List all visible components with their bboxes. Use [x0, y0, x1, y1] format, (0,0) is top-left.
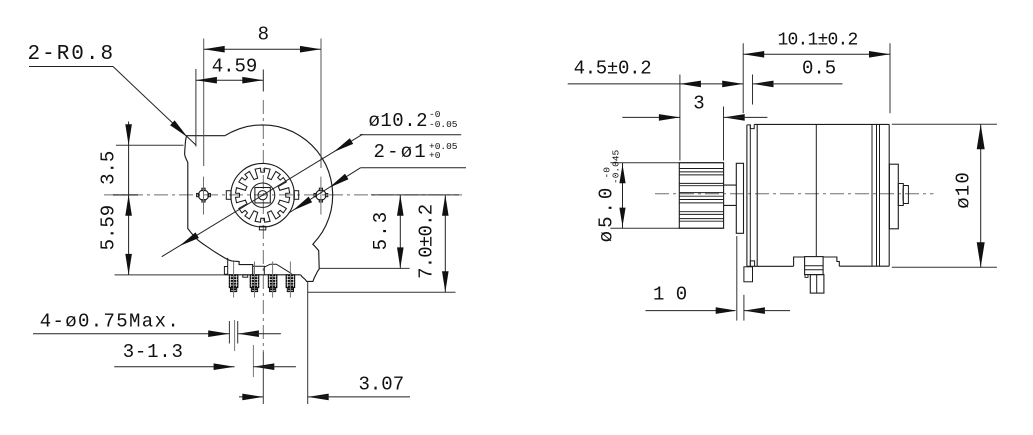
terminal block left edge	[227, 258, 229, 275]
dim 3.07 arrow right	[308, 394, 329, 401]
dim 3 arrow left	[659, 114, 680, 121]
dim 4.5 arrow left	[680, 81, 701, 88]
dim 5.3 arrow bottom	[397, 247, 404, 268]
svg-text:10.1±0.2: 10.1±0.2	[777, 31, 857, 51]
rear shaft step2	[903, 186, 908, 204]
dim 3 arrow right	[724, 114, 745, 121]
connector inner line 1	[805, 265, 824, 267]
svg-text:4.59: 4.59	[212, 56, 258, 78]
pinion tip line top	[610, 162, 723, 164]
connector inner line 2	[805, 269, 824, 271]
body rear line 3	[879, 124, 881, 266]
dim 8 line	[204, 48, 321, 50]
dim 1.0 leader	[646, 310, 736, 312]
leader 2-R0.8 arrow	[170, 120, 188, 137]
front cap top with notch	[747, 124, 754, 128]
pin 1	[229, 275, 238, 292]
dim 4.5 leader	[568, 83, 680, 85]
svg-text:ø10.2: ø10.2	[369, 110, 429, 132]
front cap bottom step	[750, 261, 754, 266]
dim 8 extension left	[203, 39, 205, 167]
dim 3.07 arrow left	[242, 394, 263, 401]
pin 3 centerline	[272, 262, 274, 298]
left mounting hole	[197, 188, 211, 202]
dim 3.5 arrow top	[125, 124, 132, 145]
left mounting hole centerline	[203, 177, 205, 215]
dim 3-1.3 tail	[253, 366, 296, 368]
dim 1.0 ext right	[743, 295, 745, 321]
dim 8 arrow right	[300, 46, 321, 53]
dim o10 line	[980, 124, 982, 267]
dim 10.1 arrow right	[869, 51, 890, 58]
centerline horizontal (side view)	[655, 193, 934, 195]
dim 5.3 arrow top	[397, 195, 404, 216]
dim o5.0 line	[622, 163, 624, 229]
rear bearing plate	[889, 164, 898, 229]
pinion tip line bottom	[610, 227, 723, 229]
pin2 centerline extension	[252, 345, 254, 377]
front cap left edge	[746, 125, 748, 267]
centerline vertical solid upper segment	[262, 70, 264, 92]
connector foot	[805, 275, 808, 278]
dim 7.0 extension bottom	[308, 291, 456, 293]
terminal block center step	[253, 266, 265, 275]
dim 3.5 extension top	[116, 144, 184, 146]
connector right ledge	[823, 257, 839, 266]
dim 0.5 ext	[752, 75, 754, 105]
svg-text:0.5: 0.5	[802, 58, 836, 80]
leader 2-R0.8 line	[113, 67, 196, 146]
body bottom edge left	[747, 265, 794, 267]
front cap inner line	[749, 125, 751, 267]
centerline solid lower segment	[262, 352, 264, 404]
dim 0.5 arrow	[753, 81, 774, 88]
dim o10 ext bottom	[892, 266, 997, 268]
motor body outline top/right (front view)	[225, 125, 333, 282]
dim 3 leader	[622, 116, 680, 118]
rear shaft tick	[902, 189, 904, 201]
dim 4.59 line	[196, 79, 263, 81]
dim o10 arrow bottom	[977, 242, 985, 267]
leader o10.2 arrow upper	[334, 138, 354, 152]
svg-text:5.59: 5.59	[98, 205, 120, 251]
dim 1.0 tail	[744, 310, 790, 312]
dim 4.59 arrow right	[242, 77, 263, 84]
dim 5.59 arrow bottom	[125, 254, 132, 275]
svg-text:3.07: 3.07	[359, 374, 405, 396]
dim 3-1.3 arrow left	[214, 363, 235, 370]
body top edge	[754, 123, 889, 125]
dim 3.07 extension	[307, 282, 309, 404]
dim o10 arrow top	[977, 124, 985, 149]
gearbox flange plate	[736, 163, 743, 233]
dim 3-1.3 arrow right	[253, 363, 274, 370]
right mounting hole	[314, 188, 328, 202]
dim 10.1 line	[743, 53, 890, 55]
pin 2 centerline	[254, 262, 256, 298]
leader o10.2 arrow lower	[179, 232, 199, 246]
pin 1 centerline	[233, 262, 235, 298]
svg-text:3.5: 3.5	[98, 151, 120, 185]
dim 4-o0.75 leader	[33, 333, 229, 335]
dim 1.0 arrow left	[716, 307, 737, 314]
dim 4-o0.75 arrow right	[238, 330, 259, 337]
pin1 right edge extension	[237, 321, 239, 344]
body rear line 2	[876, 124, 878, 266]
front cap bottom tab	[744, 267, 753, 282]
terminal base left tab	[224, 267, 227, 275]
dim 4.59 arrow left	[196, 77, 217, 84]
dim 5.3 extension bottom	[319, 267, 409, 269]
pinion body	[679, 163, 723, 229]
body bottom edge right	[839, 265, 889, 267]
pin 3	[268, 275, 277, 292]
dim 4-o0.75 tail	[238, 333, 281, 335]
leader 2-o1 diagonal	[288, 168, 361, 214]
gear hub square	[255, 188, 270, 203]
leader 2-o1 arrow upper	[329, 174, 349, 188]
svg-text:-0.045: -0.045	[611, 149, 622, 184]
dim 5.3 line	[399, 195, 401, 269]
svg-text:8: 8	[258, 24, 269, 46]
svg-text:-0.05: -0.05	[429, 119, 458, 130]
gear center bore	[258, 191, 267, 200]
body seam line	[815, 124, 817, 256]
body rear line 1	[871, 124, 873, 266]
leader 2-R0.8 underline	[29, 66, 113, 68]
notch between pin1 and pin2	[243, 275, 248, 277]
centerline vertical (front view)	[262, 100, 264, 352]
svg-text:4.5±0.2: 4.5±0.2	[574, 58, 652, 80]
svg-text:4-ø0.75Max.: 4-ø0.75Max.	[40, 311, 180, 333]
dim 8 arrow left	[204, 46, 225, 53]
connector box	[805, 257, 824, 275]
connector lower tab inner	[816, 275, 818, 294]
dim o5.0 arrow bottom	[619, 208, 625, 227]
gear circle right tab	[294, 191, 299, 200]
datum segment at 3.5/5.59 dim	[113, 194, 138, 196]
dim 8 extension right	[320, 39, 322, 169]
dim 4.59 extension left	[195, 69, 197, 147]
pin 4 centerline	[289, 262, 291, 298]
gear circle left tab	[226, 191, 231, 200]
dim 7.0 arrow top	[442, 195, 449, 216]
gear circle bottom tab	[259, 226, 265, 230]
dim 3.5 arrow bottom / 5.59 arrow top	[125, 195, 132, 216]
svg-text:2-ø1: 2-ø1	[374, 141, 428, 163]
motor body outline left/bottom (front view)	[185, 136, 253, 275]
connector lower tab	[810, 275, 824, 294]
dim 0.5 tail	[753, 83, 843, 85]
dim 3 ext right	[723, 107, 725, 161]
dim 4.5 ext pinion face	[679, 75, 681, 161]
rear shaft step1	[898, 184, 903, 206]
label o10.2 underline	[360, 134, 461, 136]
label 2-o1 underline	[361, 167, 466, 169]
centerline horizontal (front view)	[104, 194, 462, 196]
gear hub octagon	[250, 183, 274, 207]
gear outer circle	[231, 163, 295, 227]
right mounting hole centerline	[320, 177, 322, 215]
dim 10.1 arrow left	[743, 51, 764, 58]
pin 4	[286, 275, 295, 292]
dim 4.5 arrow right	[722, 81, 743, 88]
pinion shaft	[724, 185, 737, 205]
leader o10.2 diagonal	[162, 134, 363, 257]
svg-text:3: 3	[693, 93, 704, 115]
svg-text:2-R0.8: 2-R0.8	[28, 43, 116, 66]
datum segment at 5.3/7.0 dim	[371, 194, 459, 196]
gear teeth	[236, 168, 290, 222]
dim 1.0 ext left	[736, 236, 738, 321]
dim o10 ext top	[892, 123, 997, 125]
svg-text:7.0±0.2: 7.0±0.2	[416, 204, 438, 279]
dim 10.1 extension right	[889, 43, 891, 113]
svg-text:5.3: 5.3	[370, 210, 392, 251]
pin 2	[250, 275, 259, 292]
dim 7.0 line	[444, 195, 446, 292]
body right face	[888, 124, 890, 266]
front cap right edge	[756, 124, 758, 266]
dim 4.5 line	[680, 83, 743, 85]
dim 3.5/5.59 line	[128, 122, 130, 275]
dim 3.07 tail	[308, 396, 410, 398]
svg-text:ø5.0: ø5.0	[596, 185, 618, 243]
dim o5.0 arrow top	[619, 164, 625, 183]
dim 10.1 extension left	[742, 43, 744, 113]
pin1 left edge extension	[228, 321, 230, 344]
dim 7.0 arrow bottom	[442, 271, 449, 292]
svg-text:ø10: ø10	[953, 171, 975, 209]
svg-text:+0: +0	[429, 150, 441, 161]
dim 3 tail	[724, 116, 768, 118]
pinion teeth stripes	[679, 169, 723, 222]
dim 4-o0.75 arrow left	[208, 330, 229, 337]
dim 3-1.3 line	[114, 366, 234, 368]
svg-text:3-1.3: 3-1.3	[123, 341, 184, 363]
terminal base strip	[224, 274, 300, 276]
dim 5.59 extension bottom	[115, 274, 225, 276]
pin1 centerline extension	[234, 320, 236, 351]
dim 3.07 line	[239, 396, 263, 398]
svg-text:1 0: 1 0	[653, 284, 687, 306]
connector left ledge	[794, 257, 805, 266]
leader 2-o1 arrow lower	[293, 197, 313, 211]
dim 1.0 arrow right	[744, 307, 765, 314]
terminal block slanted edge	[264, 264, 291, 274]
